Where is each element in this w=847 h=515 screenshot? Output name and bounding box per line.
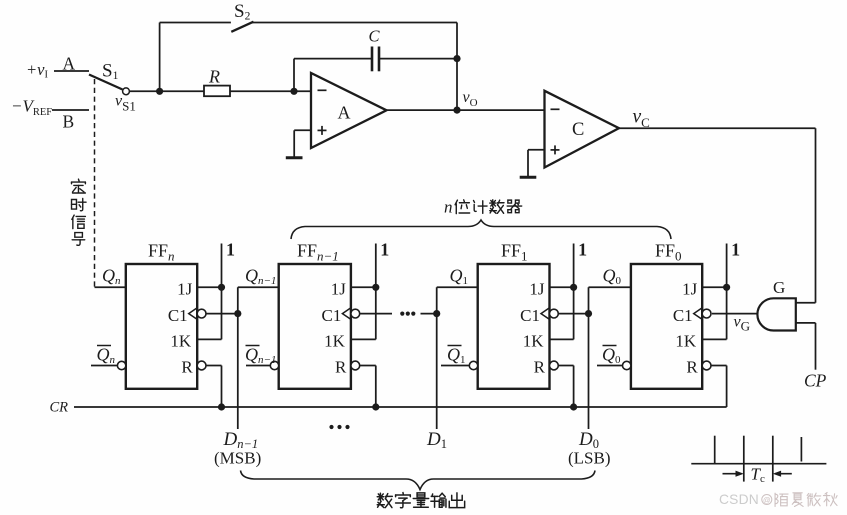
label 定时信号 (timing signal) bbox=[72, 179, 87, 245]
svg-text:CR: CR bbox=[50, 400, 69, 416]
svg-text:Qn−1: Qn−1 bbox=[245, 345, 276, 367]
svg-text:R: R bbox=[181, 358, 193, 377]
wire + to ground (C) bbox=[527, 150, 529, 176]
wire R FF_1 bbox=[558, 365, 573, 367]
clock bubble FF_1 bbox=[550, 309, 559, 318]
svg-text:Tc: Tc bbox=[751, 465, 765, 486]
wire 1J FF_n-1 bbox=[351, 286, 376, 288]
flip-flop FF_1 bbox=[478, 264, 550, 389]
wire feedback right bbox=[379, 58, 457, 60]
svg-text:1: 1 bbox=[380, 240, 389, 260]
reset bubble FF_n-1 bbox=[351, 361, 360, 370]
junction inverting node bbox=[290, 88, 297, 95]
ground (comparator C) bbox=[520, 176, 537, 179]
svg-text:1: 1 bbox=[226, 240, 235, 260]
switch S2 bbox=[231, 22, 253, 32]
wire comparator + input bbox=[528, 149, 545, 151]
junction 1J FF_0 bbox=[723, 284, 730, 291]
svg-text:C: C bbox=[572, 120, 584, 140]
op-amp A bbox=[311, 73, 387, 148]
svg-text:C1: C1 bbox=[322, 306, 342, 325]
svg-text:1J: 1J bbox=[682, 280, 698, 299]
ellipsis outputs bbox=[329, 425, 333, 429]
Qbar_n-1 output bbox=[246, 365, 270, 367]
wire C1 FF_n-1 left bbox=[360, 313, 392, 315]
wire gate bottom input bbox=[796, 322, 816, 324]
junction CR/R FF_n bbox=[218, 403, 225, 410]
clock tick 3 bbox=[772, 436, 774, 482]
svg-text:(LSB): (LSB) bbox=[568, 449, 611, 468]
svg-text:Q0: Q0 bbox=[603, 266, 622, 288]
wire feedback left bbox=[294, 58, 372, 60]
svg-text:(MSB): (MSB) bbox=[214, 449, 261, 468]
capacitor C bbox=[371, 47, 374, 72]
brace over counter bbox=[291, 220, 671, 239]
wire S1 output node bbox=[129, 90, 204, 92]
wire op-amp A output bbox=[387, 109, 545, 111]
svg-text:−VREF: −VREF bbox=[11, 97, 52, 119]
svg-text:Qn: Qn bbox=[102, 266, 121, 288]
svg-text:1: 1 bbox=[578, 240, 587, 260]
wire C1 FF_n bbox=[206, 313, 238, 315]
wire S2 left bbox=[160, 22, 231, 24]
wire 1J FF_1 bbox=[550, 286, 574, 288]
clock bubble FF_n bbox=[197, 309, 206, 318]
svg-text:n: n bbox=[444, 198, 453, 217]
brace under outputs bbox=[241, 471, 596, 490]
clock tick 4 bbox=[800, 437, 802, 462]
svg-text:R: R bbox=[335, 358, 347, 377]
wire R FF_n-1 bbox=[360, 365, 376, 367]
svg-text:1K: 1K bbox=[675, 332, 697, 351]
svg-text:FF0: FF0 bbox=[655, 241, 682, 264]
junction Q_1/C1 bbox=[433, 310, 440, 317]
wire Q_n-1 bbox=[238, 286, 279, 288]
svg-text:Q1: Q1 bbox=[447, 345, 466, 367]
junction CR/R FF_1 bbox=[570, 403, 577, 410]
svg-text:Q1: Q1 bbox=[450, 266, 469, 288]
wire C1 FF_1 bbox=[558, 313, 588, 315]
svg-text:vS1: vS1 bbox=[115, 93, 136, 114]
AND gate G bbox=[757, 298, 795, 330]
wire 1K FF_n bbox=[197, 338, 221, 340]
svg-text:vG: vG bbox=[734, 314, 751, 334]
wire Q_1 bbox=[437, 286, 478, 288]
junction 1J FF_n bbox=[218, 284, 225, 291]
svg-text:D1: D1 bbox=[426, 429, 447, 451]
comparator C bbox=[545, 91, 620, 168]
logic-1 rail FF_0 bbox=[726, 244, 728, 340]
wire + to ground bbox=[293, 130, 295, 156]
wire 1K FF_1 bbox=[550, 338, 574, 340]
wire Q_1 drop to D_1 bbox=[436, 287, 438, 429]
svg-text:C1: C1 bbox=[673, 306, 693, 325]
junction 1J FF_1 bbox=[570, 284, 577, 291]
reset bubble FF_n bbox=[197, 361, 206, 370]
logic-1 rail FF_1 bbox=[573, 244, 575, 340]
arrow right (T_c) bbox=[775, 473, 792, 475]
svg-text:A: A bbox=[338, 103, 351, 123]
clock bubble FF_n-1 bbox=[351, 309, 360, 318]
svg-text:1J: 1J bbox=[331, 280, 347, 299]
svg-text:@: @ bbox=[763, 496, 771, 505]
wire gate top input bbox=[796, 302, 816, 304]
label 数字量输出 (digital output) bbox=[377, 493, 464, 508]
flip-flop FF_n bbox=[126, 264, 197, 389]
svg-text:S2: S2 bbox=[234, 1, 251, 23]
svg-text:R: R bbox=[534, 358, 546, 377]
svg-text:FFn: FFn bbox=[148, 241, 175, 264]
wire C1 FF_0 (v_G) bbox=[712, 313, 757, 315]
Qbar_n output bbox=[91, 365, 117, 367]
wire 1K FF_0 bbox=[702, 338, 726, 340]
Qbar_0 output bbox=[597, 365, 623, 367]
svg-text:FFn−1: FFn−1 bbox=[297, 241, 339, 264]
logic-1 rail FF_n bbox=[221, 244, 223, 340]
junction 1J FF_n-1 bbox=[372, 284, 379, 291]
svg-text:C: C bbox=[369, 27, 381, 46]
wire inverting node up bbox=[293, 59, 295, 92]
svg-text:C1: C1 bbox=[168, 306, 188, 325]
svg-text:vC: vC bbox=[633, 107, 650, 131]
svg-text:Q0: Q0 bbox=[602, 345, 621, 367]
svg-text:1J: 1J bbox=[529, 280, 545, 299]
wire R FF_0 bbox=[711, 365, 727, 367]
svg-text:CSDN: CSDN bbox=[719, 492, 759, 507]
wire S2 down bbox=[456, 23, 458, 111]
junction Q_0/C1 bbox=[585, 310, 592, 317]
junction feedback bbox=[453, 55, 460, 62]
wire op-amp + input bbox=[294, 129, 311, 131]
reset bubble FF_1 bbox=[550, 361, 559, 370]
svg-text:G: G bbox=[773, 278, 785, 297]
flip-flop FF_n-1 bbox=[279, 264, 351, 389]
Qbar_1 output bbox=[441, 365, 469, 367]
svg-text:Qn−1: Qn−1 bbox=[245, 266, 276, 288]
svg-text:CP: CP bbox=[804, 371, 827, 391]
svg-text:1: 1 bbox=[731, 240, 740, 260]
wire Q_0 drop to D_0 bbox=[588, 287, 590, 429]
wire R to op-amp bbox=[230, 90, 311, 92]
logic-1 rail FF_n-1 bbox=[375, 244, 377, 340]
junction vS1/S2 bbox=[156, 88, 163, 95]
CR reset line bbox=[74, 406, 727, 408]
ellipsis on C1 chain bbox=[400, 312, 404, 316]
ground (op-amp A) bbox=[286, 156, 303, 159]
arrow left (T_c) bbox=[723, 473, 742, 475]
svg-text:+vI: +vI bbox=[26, 60, 48, 81]
wire C1 FF_n-1 right bbox=[421, 313, 437, 315]
svg-text:vO: vO bbox=[463, 89, 478, 109]
clock waveform baseline bbox=[691, 463, 826, 465]
junction CR/R FF_n-1 bbox=[372, 403, 379, 410]
wire S2 right bbox=[252, 22, 457, 24]
svg-text:1J: 1J bbox=[177, 280, 193, 299]
clock bubble FF_0 bbox=[702, 309, 711, 318]
wire 1J FF_n bbox=[197, 286, 221, 288]
wire Q_n bbox=[95, 286, 126, 288]
wire R FF_n bbox=[206, 365, 222, 367]
svg-text:S1: S1 bbox=[102, 61, 119, 83]
svg-text:1K: 1K bbox=[523, 332, 545, 351]
svg-text:FF1: FF1 bbox=[501, 241, 528, 264]
svg-text:C1: C1 bbox=[520, 306, 540, 325]
switch S1 bbox=[89, 75, 123, 90]
svg-text:B: B bbox=[63, 112, 75, 132]
svg-text:1K: 1K bbox=[324, 332, 346, 351]
resistor R bbox=[204, 86, 230, 97]
wire 1J FF_0 bbox=[702, 286, 726, 288]
wire Q_0 bbox=[589, 286, 631, 288]
svg-text:R: R bbox=[208, 67, 220, 87]
svg-text:R: R bbox=[686, 358, 698, 377]
clock tick 2 bbox=[743, 436, 745, 482]
svg-text:1K: 1K bbox=[170, 332, 192, 351]
clock tick 1 bbox=[714, 436, 716, 464]
wire v_C bbox=[619, 127, 816, 129]
junction v_O bbox=[453, 107, 460, 114]
wire v_C down bbox=[815, 128, 817, 303]
svg-text:Qn: Qn bbox=[97, 345, 116, 367]
wire Q_n-1 drop to D_n-1 bbox=[237, 287, 239, 429]
reset bubble FF_0 bbox=[702, 361, 711, 370]
flip-flop FF_0 bbox=[631, 264, 702, 389]
dashed control line for S1 bbox=[94, 79, 96, 287]
junction Q_n-1/C1 bbox=[234, 310, 241, 317]
wire 1K FF_n-1 bbox=[351, 338, 376, 340]
wire to S2 bbox=[159, 23, 161, 92]
